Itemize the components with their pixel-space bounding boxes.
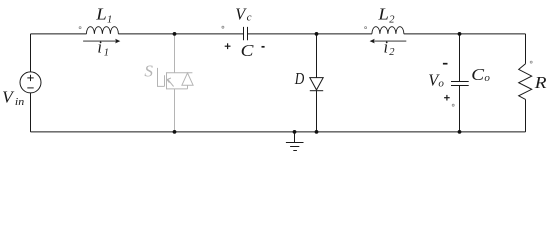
voltage source Vin circle <box>20 72 41 93</box>
current arrow i1 <box>83 39 120 44</box>
plus sign of capacitor C <box>225 43 231 49</box>
wire right branch upper <box>525 34 527 64</box>
node bottom of Co <box>458 130 462 134</box>
wire top rail left segment <box>31 33 87 35</box>
svg-text:1: 1 <box>104 47 109 58</box>
wire top rail L1 to capacitor C <box>118 33 243 35</box>
polarity mark circle Vo <box>452 104 454 106</box>
minus sign inside Vin <box>27 87 33 89</box>
svg-text:c: c <box>247 11 252 23</box>
svg-text:V: V <box>2 88 15 107</box>
wire left branch upper <box>30 34 32 72</box>
wire output capacitor branch upper <box>459 34 461 82</box>
node top of switch <box>173 32 177 36</box>
svg-text:C: C <box>241 41 255 60</box>
wire output capacitor branch lower <box>459 86 461 132</box>
svg-text:1: 1 <box>107 15 112 26</box>
wire bottom rail <box>31 131 526 133</box>
svg-text:L: L <box>95 4 107 23</box>
minus sign of Vo <box>443 63 448 65</box>
node ground junction <box>293 130 297 134</box>
svg-text:2: 2 <box>389 15 395 26</box>
svg-text:V: V <box>235 4 247 23</box>
polarity mark circle C <box>222 26 224 28</box>
svg-text:C: C <box>471 65 485 84</box>
wire diode branch lower <box>316 91 318 132</box>
polarity mark circle R <box>530 61 532 63</box>
node bottom of diode <box>315 130 319 134</box>
inductor L2 <box>372 27 404 34</box>
svg-text:i: i <box>97 38 102 57</box>
svg-text:o: o <box>438 78 444 90</box>
plus sign inside Vin <box>27 75 33 81</box>
node bottom of switch <box>173 130 177 134</box>
svg-text:2: 2 <box>389 47 395 58</box>
transistor switch S (grey MOSFET with body diode) <box>158 34 194 132</box>
ground <box>286 132 304 151</box>
svg-text:in: in <box>15 96 25 108</box>
wire right branch lower <box>525 99 527 131</box>
plus sign of Vo <box>444 95 450 101</box>
node dots <box>173 32 462 134</box>
resistor R <box>519 64 532 100</box>
svg-text:L: L <box>377 4 389 23</box>
wire diode branch upper <box>316 34 318 78</box>
minus sign of capacitor C <box>262 46 265 48</box>
inductor L1 <box>86 27 118 34</box>
svg-text:S: S <box>144 61 153 80</box>
polarity mark circle L2 <box>365 27 367 29</box>
capacitor C plates <box>244 27 248 40</box>
capacitor Co plates <box>451 82 469 86</box>
wire left branch lower <box>30 93 32 132</box>
svg-text:i: i <box>384 38 389 57</box>
wire top rail L2 to right corner <box>404 33 526 35</box>
node top of Co <box>458 32 462 36</box>
diode D <box>310 78 323 91</box>
wire top rail C to L2 <box>248 33 373 35</box>
current arrow i2 <box>370 39 407 44</box>
node top of diode <box>315 32 319 36</box>
svg-text:D: D <box>294 69 304 88</box>
svg-text:o: o <box>484 72 490 84</box>
svg-text:R: R <box>534 73 547 92</box>
polarity mark circle L1 <box>79 27 81 29</box>
